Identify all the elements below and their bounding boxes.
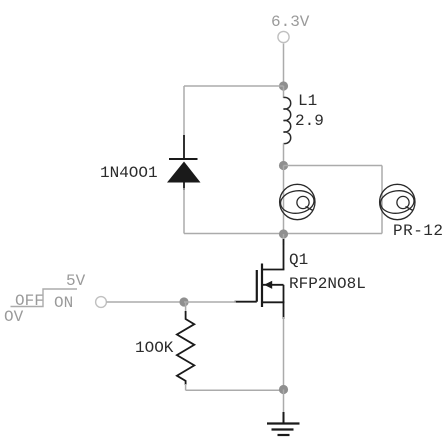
svg-text:L1: L1 — [298, 92, 317, 110]
wire lamp box right side — [381, 166, 383, 234]
wire inductor to node B — [283, 144, 285, 166]
wire diode branch lower — [183, 188, 185, 234]
terminal gate input — [96, 297, 107, 308]
svg-text:2.9: 2.9 — [295, 112, 324, 130]
svg-text:ON: ON — [54, 294, 73, 312]
node C junction — [279, 229, 288, 238]
wire input to node D — [107, 301, 185, 303]
svg-text:OV: OV — [4, 308, 24, 326]
svg-text:1OOK: 1OOK — [135, 339, 174, 357]
lamp DS2 PR-12 — [379, 184, 415, 219]
inductor L1 — [284, 97, 291, 143]
terminal 6.3V supply — [278, 31, 289, 42]
svg-text:1N4OO1: 1N4OO1 — [100, 164, 158, 182]
wire node A to inductor — [283, 86, 285, 98]
ground — [267, 412, 300, 435]
wire supply to node A — [283, 44, 285, 87]
wire resistor to bottom — [185, 384, 187, 390]
svg-text:PR-12: PR-12 — [393, 222, 444, 240]
resistor R1 100K — [177, 311, 194, 385]
wire node B to lamp box right top — [284, 165, 383, 167]
node E junction — [279, 385, 288, 394]
node D junction — [179, 297, 188, 306]
svg-text:5V: 5V — [66, 272, 86, 290]
diode D1 1N4001 — [167, 135, 201, 190]
wire source to node E — [283, 317, 285, 390]
lamp DS1 — [279, 184, 315, 219]
wire node B to node C through lamp 1 — [283, 166, 285, 234]
wire node E to ground — [283, 390, 285, 414]
transistor Q1 RFP2N08L — [235, 239, 285, 319]
wire node A to diode top — [184, 85, 284, 87]
wire resistor bottom to node E — [186, 389, 284, 391]
wire lamp box bottom — [284, 233, 383, 235]
svg-text:RFP2NO8L: RFP2NO8L — [289, 275, 366, 293]
wire diode branch upper — [183, 86, 185, 137]
svg-text:Q1: Q1 — [289, 251, 308, 269]
step waveform off-on — [11, 289, 78, 307]
node B junction — [279, 161, 288, 170]
wire node D to resistor — [185, 302, 187, 313]
wire node D to gate — [184, 301, 236, 303]
wire node C to drain — [283, 234, 285, 245]
svg-text:6.3V: 6.3V — [271, 13, 310, 31]
node A junction — [279, 81, 288, 90]
wire diode bottom to node C — [184, 233, 284, 235]
